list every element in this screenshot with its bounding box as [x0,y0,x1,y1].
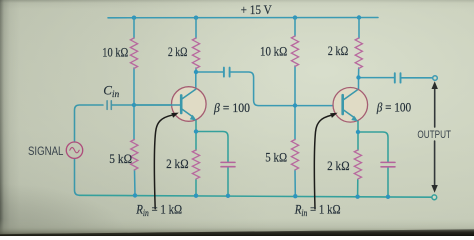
wire: emitter line stage1 [195,120,197,196]
wire: Cin to Q1 base [112,104,181,106]
output arrow (black, double-headed) [434,86,436,189]
wire: collector line stage2 (x=359) [358,18,361,91]
svg-text:SIGNAL: SIGNAL [28,146,64,158]
wire: +15V top supply rail [108,17,378,19]
annotation arrow to Q1 (Rin pointer) [154,115,171,209]
wire: stage2 collector to output coupling cap [359,77,432,79]
resistor R5 10k stage2 [291,36,298,66]
svg-text:Rin = 1 kΩ: Rin = 1 kΩ [294,202,341,219]
node: top rail junction dots [132,15,361,20]
annotation arrow to Q2 (Rin pointer) [314,115,330,208]
bottom dark bezel band [0,219,474,237]
capacitor Cin [107,101,111,110]
wire: divider line stage2 (x=295) [294,18,296,197]
svg-text:10 kΩ: 10 kΩ [260,43,287,58]
resistor R2 5k stage1 [131,140,138,170]
wire: signal source to Cin [75,105,104,142]
svg-text:2 kΩ: 2 kΩ [166,156,189,171]
signal source [66,142,82,158]
svg-text:5 kΩ: 5 kΩ [265,149,287,164]
node: output top terminal [433,76,438,81]
wire: signal source down to ground rail [75,159,80,196]
capacitor C3 interstage coupling [224,68,230,77]
resistor R6 5k stage2 [291,140,298,170]
resistor R8 2k stage2 emitter [354,150,361,179]
svg-text:5 kΩ: 5 kΩ [109,151,132,166]
transistor Q1 [134,87,206,122]
node: output bottom terminal [432,195,437,200]
svg-text:2 kΩ: 2 kΩ [168,44,188,59]
svg-text:Rin = 1 kΩ: Rin = 1 kΩ [135,201,182,218]
wire: bottom ground rail [80,195,432,197]
svg-text:Cin: Cin [103,82,119,100]
svg-text:β = 100: β = 100 [213,100,250,115]
svg-text:OUTPUT: OUTPUT [417,129,451,141]
svg-text:β = 100: β = 100 [376,99,411,114]
wire: stage1 collector to coupling cap and stage2 base [196,72,342,106]
wire: emitter line stage2 [357,121,359,197]
capacitor bypass C4 stage2 [381,162,395,166]
wire: collector line stage1 (x=196) [195,18,197,90]
node: junction dots mid and bottom [132,70,390,199]
capacitor C5 output coupling [395,73,401,82]
wire: stage2 emitter bypass branch [358,132,388,197]
svg-text:2 kΩ: 2 kΩ [328,43,348,58]
wire: stage1 emitter bypass branch [196,132,228,196]
transistor Q2 [333,88,368,123]
svg-text:10 kΩ: 10 kΩ [102,45,128,60]
wire: divider line stage1 (x=134) [134,18,135,196]
svg-text:+ 15 V: + 15 V [241,2,273,17]
resistor R7 2k stage2 collector [355,38,362,68]
resistor R1 10k stage1 [130,38,137,68]
capacitor bypass C2 stage1 [221,162,235,166]
svg-text:2 kΩ: 2 kΩ [327,158,350,173]
resistor R4 2k stage1 emitter [192,150,199,179]
resistor R3 2k stage1 collector [192,38,199,68]
